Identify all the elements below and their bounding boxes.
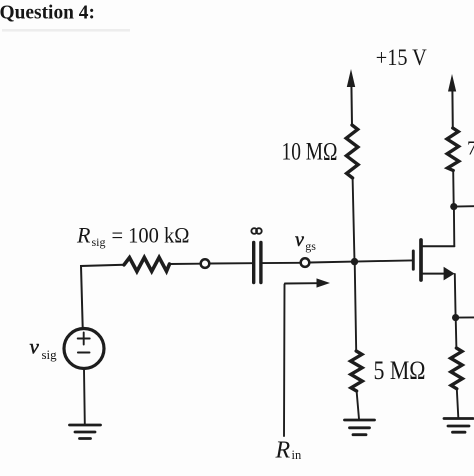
wire R_sig to node — [170, 263, 201, 265]
node vgs: open circle — [301, 258, 310, 267]
supply arrow (10 MΩ branch) — [347, 69, 355, 126]
minus sign — [78, 352, 90, 354]
wire 10 MΩ bottom to gate junction — [353, 178, 355, 262]
node: drain junction dot — [450, 203, 457, 210]
voltage source v_sig — [64, 329, 104, 369]
R_in arrow — [284, 283, 317, 436]
wire drain node to right edge — [454, 205, 474, 207]
svg-text:5 MΩ: 5 MΩ — [374, 355, 426, 385]
wire source corner down to source node — [454, 274, 457, 318]
wire drain resistor to drain node — [452, 171, 455, 207]
wire drain node down to MOSFET drain — [453, 207, 455, 247]
wire capacitor to vgs node — [263, 262, 301, 264]
wire 5 MΩ to ground — [357, 391, 359, 419]
svg-text:R: R — [275, 438, 291, 464]
wire source node to right edge — [456, 316, 474, 318]
MOSFET Q1: source lead with arrow — [422, 273, 445, 275]
wire vgs node to gate — [309, 260, 411, 262]
label v_sig — [30, 335, 58, 363]
MOSFET Q1: gate bar — [412, 251, 415, 269]
resistor R_sig = 100 kΩ — [124, 257, 170, 271]
svg-text:v: v — [295, 229, 304, 251]
svg-text:10 MΩ: 10 MΩ — [282, 139, 338, 166]
label R_sig = 100 kΩ — [76, 223, 190, 249]
ground (v_sig) — [70, 425, 101, 439]
svg-text:sig: sig — [92, 235, 106, 249]
svg-text:sig: sig — [42, 347, 58, 362]
infinity symbol — [251, 228, 261, 234]
wire source resistor to ground — [457, 389, 459, 418]
label v_gs — [295, 229, 316, 253]
svg-text:+15 V: +15 V — [376, 45, 427, 71]
svg-text:7.5: 7.5 — [467, 137, 474, 159]
capacitor (infinite) plates — [252, 243, 255, 283]
plus sign — [78, 333, 90, 353]
node: open circle after R_sig — [201, 259, 210, 268]
wire: vsig top bend to R_sig — [81, 265, 124, 328]
wire junction down to 5 MΩ — [355, 262, 357, 351]
svg-text:v: v — [30, 335, 40, 359]
node: source junction dot — [452, 314, 459, 321]
svg-text:= 100 kΩ: = 100 kΩ — [112, 223, 190, 248]
wire source node down to source resistor — [455, 318, 458, 348]
label R_in — [275, 438, 302, 464]
resistor (drain, label 7 cut off) — [447, 128, 459, 171]
MOSFET Q1: channel bar — [419, 240, 423, 280]
scan smudge under title — [2, 29, 130, 32]
MOSFET Q1: drain lead — [422, 245, 454, 247]
svg-text:in: in — [292, 448, 302, 462]
supply arrow (right branch) — [448, 74, 456, 129]
resistor 5 MΩ — [351, 351, 363, 391]
node: gate bias junction dot — [351, 258, 358, 265]
svg-text:gs: gs — [305, 239, 316, 253]
svg-text:Question 4:: Question 4: — [0, 2, 95, 24]
wire node to capacitor — [209, 262, 251, 264]
ground (5 MΩ) — [345, 420, 375, 435]
wire v_sig to ground — [83, 369, 86, 424]
ground (source resistor) — [444, 419, 473, 433]
resistor 10 MΩ — [346, 125, 358, 178]
svg-text:R: R — [76, 223, 91, 248]
resistor (source, bottom right) — [451, 348, 463, 389]
